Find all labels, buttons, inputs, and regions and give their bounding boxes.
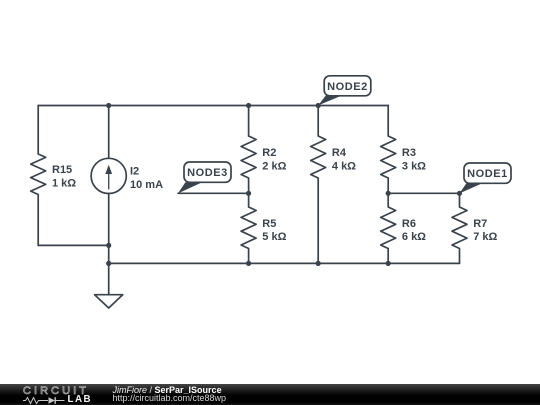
svg-text:R2: R2 bbox=[262, 147, 276, 159]
svg-text:R7: R7 bbox=[473, 218, 487, 230]
svg-text:R5: R5 bbox=[262, 218, 276, 230]
svg-text:1 kΩ: 1 kΩ bbox=[52, 178, 76, 190]
svg-text:R4: R4 bbox=[332, 147, 347, 159]
svg-text:10 mA: 10 mA bbox=[130, 179, 163, 191]
svg-text:4 kΩ: 4 kΩ bbox=[332, 160, 356, 172]
svg-text:2 kΩ: 2 kΩ bbox=[262, 160, 286, 172]
svg-text:I2: I2 bbox=[130, 165, 139, 177]
svg-text:7 kΩ: 7 kΩ bbox=[473, 231, 497, 243]
svg-text:5 kΩ: 5 kΩ bbox=[262, 231, 286, 243]
svg-text:NODE3: NODE3 bbox=[187, 167, 228, 179]
svg-text:R6: R6 bbox=[402, 218, 416, 230]
svg-text:3 kΩ: 3 kΩ bbox=[402, 160, 426, 172]
svg-text:NODE2: NODE2 bbox=[327, 81, 368, 93]
svg-text:R15: R15 bbox=[52, 164, 72, 176]
svg-text:R3: R3 bbox=[402, 147, 416, 159]
svg-text:6 kΩ: 6 kΩ bbox=[402, 231, 426, 243]
svg-text:NODE1: NODE1 bbox=[467, 168, 508, 180]
